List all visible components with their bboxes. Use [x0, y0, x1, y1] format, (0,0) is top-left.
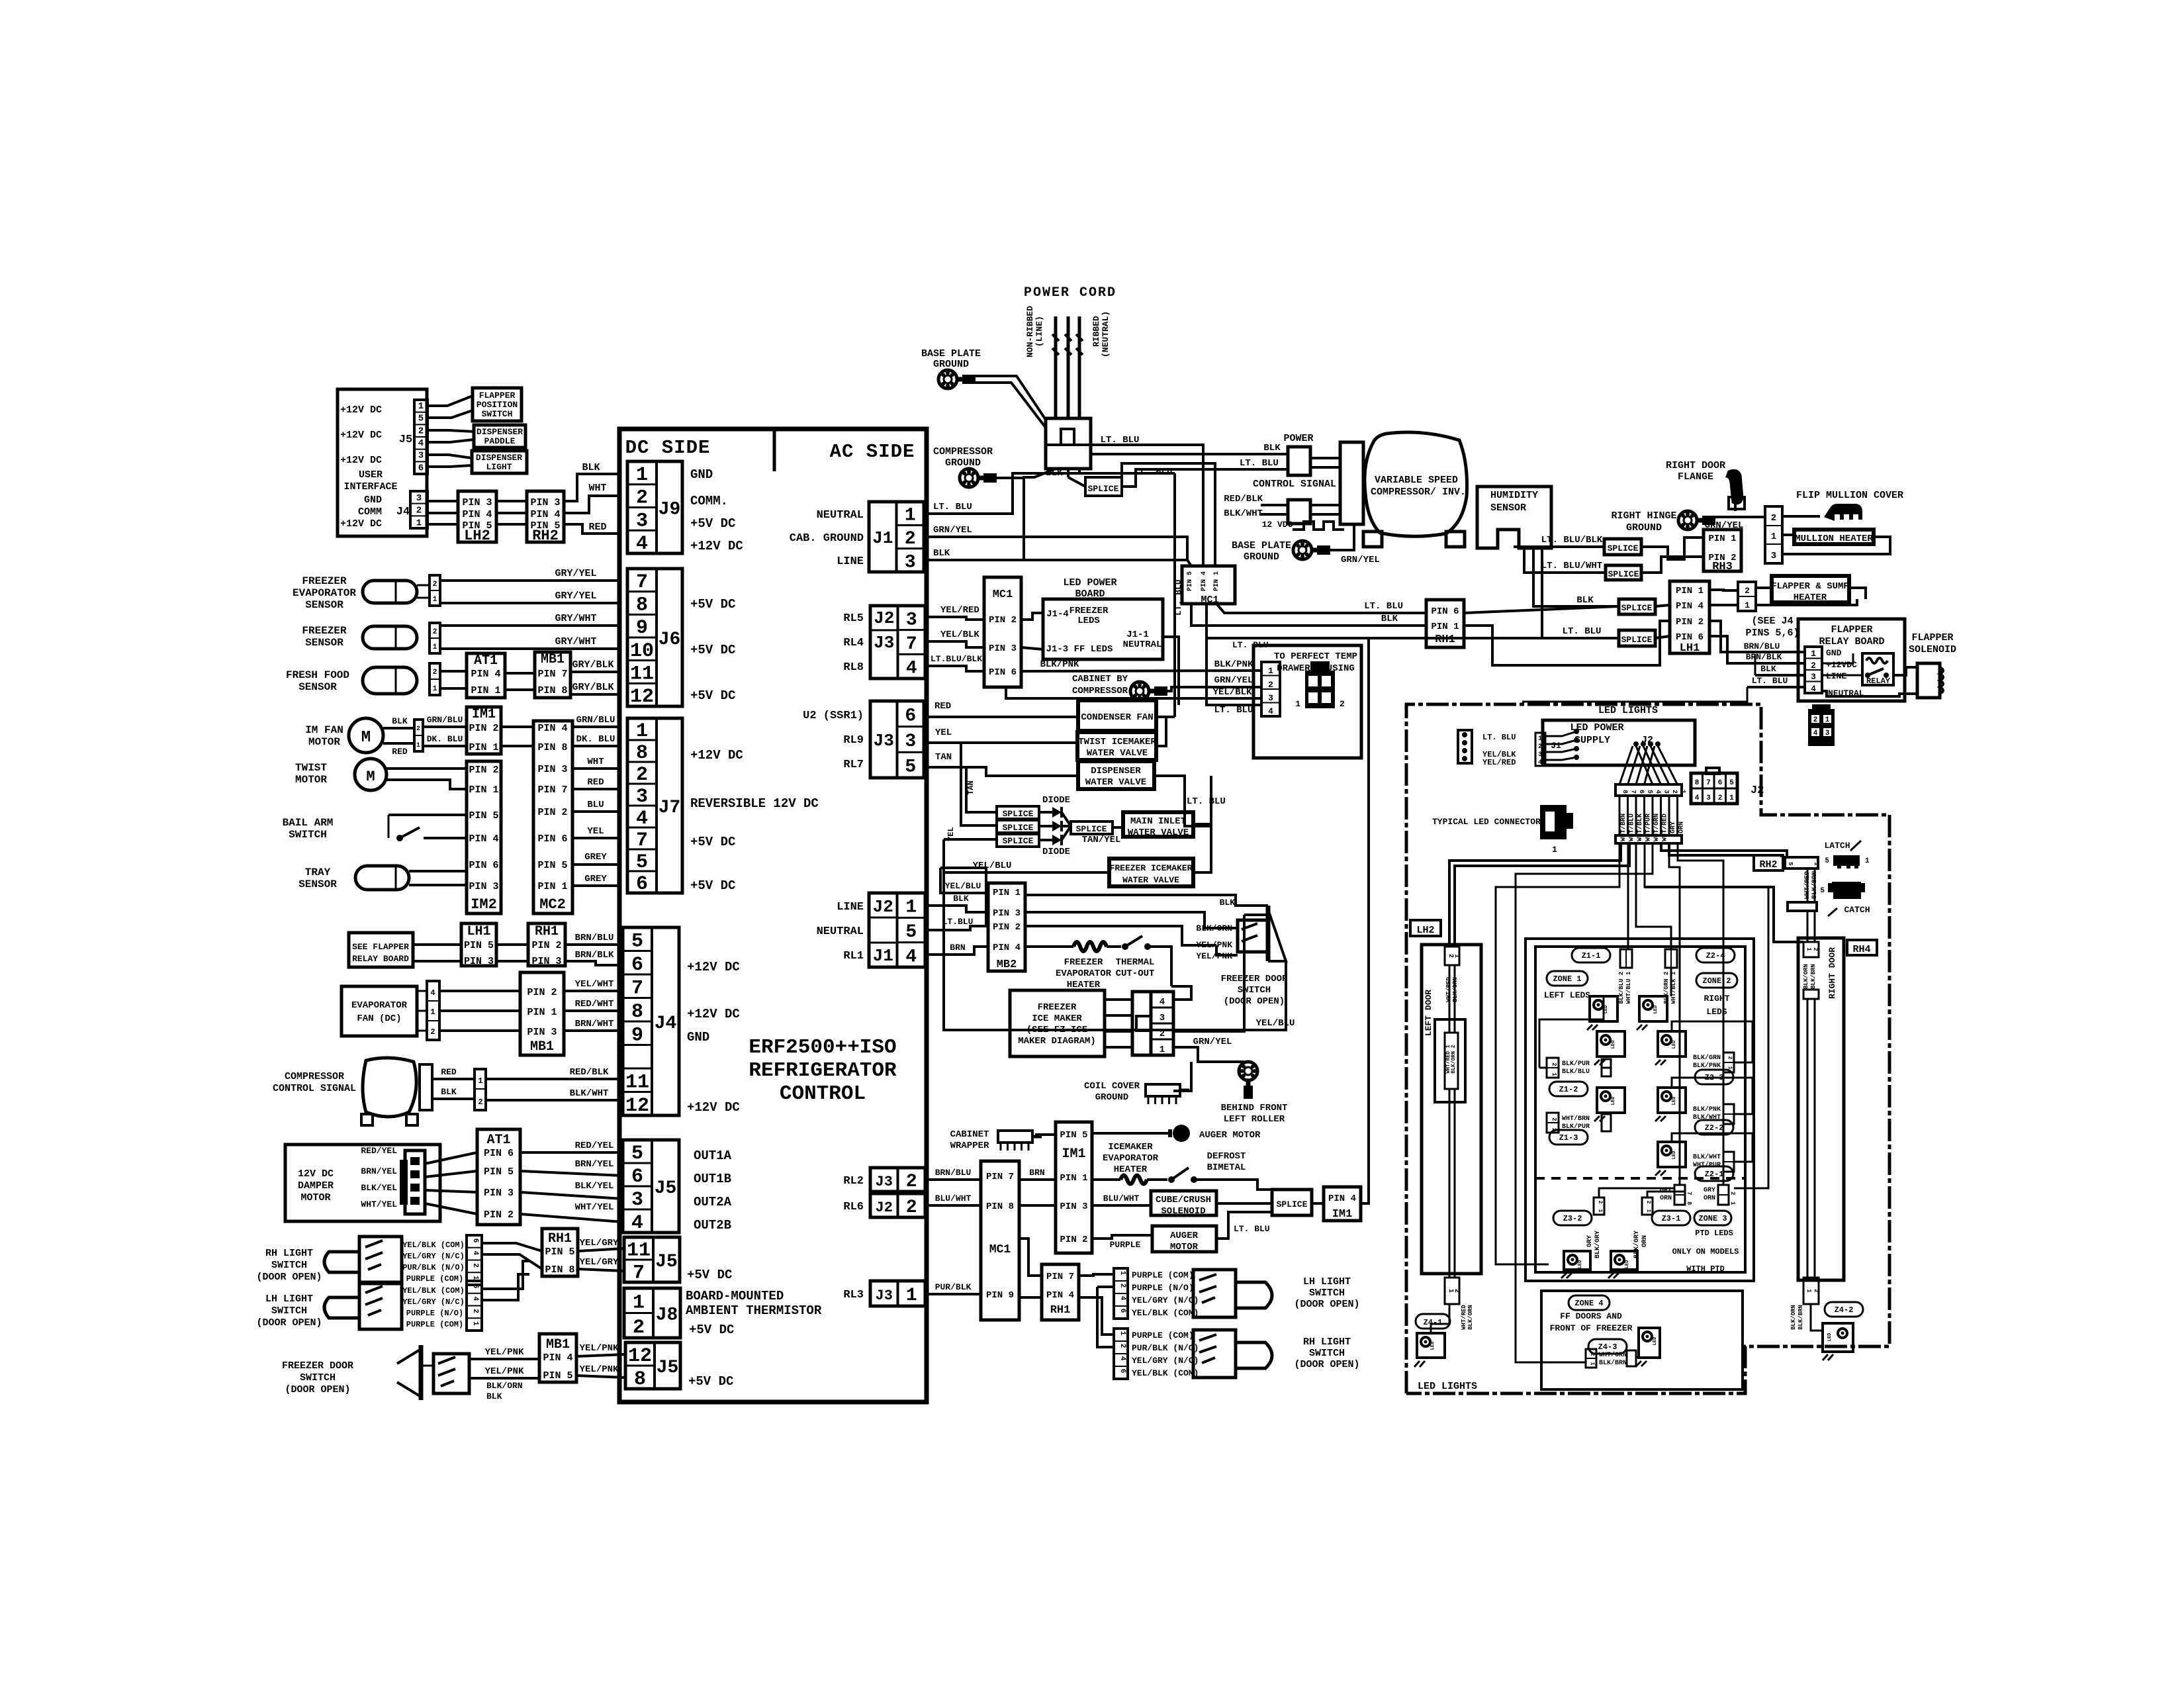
flapper relay board — [1798, 619, 1905, 701]
catch bar — [1788, 902, 1817, 911]
connector J8 — [624, 1288, 680, 1338]
auger motor top — [1092, 1132, 1170, 1135]
Z1-3 oval — [1549, 1130, 1588, 1145]
svg-text:CABINET: CABINET — [950, 1129, 989, 1140]
svg-text:YEL/WHT: YEL/WHT — [575, 979, 614, 990]
svg-text:PADDLE: PADDLE — [484, 436, 516, 446]
svg-text:DK. BLU: DK. BLU — [427, 734, 463, 744]
svg-text:RH1: RH1 — [1435, 633, 1455, 646]
yel/blu loop — [944, 872, 1286, 1030]
led power supply box — [1543, 720, 1695, 765]
svg-text:BLK: BLK — [1576, 595, 1594, 606]
svg-text:PIN 7: PIN 7 — [537, 669, 567, 680]
svg-text:PIN 6: PIN 6 — [1431, 606, 1459, 617]
svg-text:LT. BLU: LT. BLU — [933, 502, 972, 512]
svg-text:2: 2 — [636, 764, 648, 786]
twist icemaker water valve box — [1077, 732, 1156, 760]
freezer ice maker box — [1010, 990, 1105, 1056]
svg-text:FREEZER: FREEZER — [1064, 957, 1103, 968]
svg-text:PIN 5: PIN 5 — [1187, 571, 1194, 591]
auger motor box — [1092, 1235, 1152, 1239]
freezer evaporator heater — [1025, 945, 1073, 948]
wires J1 header to supply — [1545, 731, 1576, 736]
svg-text:(DOOR OPEN): (DOOR OPEN) — [285, 1384, 350, 1395]
svg-text:YEL/RED: YEL/RED — [1482, 758, 1516, 767]
svg-text:PIN 4: PIN 4 — [530, 509, 560, 520]
svg-text:PIN 4: PIN 4 — [537, 723, 567, 734]
flapper and sump heater — [1772, 576, 1849, 602]
svg-text:RED/YEL: RED/YEL — [575, 1141, 614, 1151]
connector MB1 (evap fan) — [520, 972, 564, 1055]
svg-text:PIN 3: PIN 3 — [530, 497, 560, 508]
svg-text:FRONT OF FREEZER: FRONT OF FREEZER — [1550, 1323, 1633, 1333]
splice bottom — [1272, 1190, 1312, 1215]
svg-text:J4: J4 — [655, 1013, 677, 1034]
svg-text:6: 6 — [1637, 790, 1645, 794]
svg-text:RED/WHT: RED/WHT — [575, 999, 614, 1009]
svg-text:Z4-3: Z4-3 — [1598, 1342, 1617, 1352]
svg-text:LT. BLU: LT. BLU — [1482, 733, 1516, 742]
svg-text:Z2-1: Z2-1 — [1705, 1170, 1724, 1179]
svg-text:RED: RED — [934, 701, 951, 712]
connector J7 — [627, 718, 682, 893]
svg-text:DIODE: DIODE — [1042, 847, 1070, 857]
svg-text:8: 8 — [636, 594, 648, 617]
svg-text:BLK/WHT: BLK/WHT — [570, 1088, 609, 1099]
svg-text:WATER VALVE: WATER VALVE — [1128, 827, 1189, 838]
svg-text:PIN 1: PIN 1 — [469, 742, 498, 753]
svg-text:6: 6 — [1118, 1309, 1126, 1313]
svg-text:2: 2 — [1453, 1289, 1460, 1293]
svg-text:7: 7 — [631, 977, 643, 1000]
svg-text:6: 6 — [631, 954, 643, 976]
svg-text:LED LIGHTS: LED LIGHTS — [1598, 705, 1658, 716]
svg-text:4: 4 — [1813, 729, 1818, 737]
svg-text:WATER VALVE: WATER VALVE — [1122, 875, 1179, 885]
svg-text:LT. BLU/BLK: LT. BLU/BLK — [1541, 535, 1603, 545]
svg-text:1: 1 — [416, 742, 420, 749]
svg-text:1: 1 — [1552, 845, 1557, 855]
svg-text:CONDENSER FAN: CONDENSER FAN — [1081, 712, 1153, 723]
RH light switch center pins — [1114, 1329, 1128, 1379]
svg-text:BLK: BLK — [1760, 664, 1776, 674]
connector AT1 (damper) — [477, 1129, 520, 1225]
svg-text:PURPLE (N/O): PURPLE (N/O) — [1132, 1283, 1194, 1293]
svg-text:Z3-1: Z3-1 — [1662, 1214, 1681, 1223]
svg-text:2: 2 — [1813, 716, 1818, 724]
svg-text:AT1: AT1 — [486, 1133, 510, 1148]
svg-text:SWITCH: SWITCH — [300, 1372, 336, 1383]
svg-text:6: 6 — [1718, 779, 1723, 787]
svg-text:LH LIGHT: LH LIGHT — [1303, 1276, 1351, 1288]
svg-text:SWITCH: SWITCH — [1238, 985, 1271, 996]
svg-text:4: 4 — [905, 947, 917, 967]
svg-text:RIGHT HINGE: RIGHT HINGE — [1611, 510, 1676, 522]
svg-text:PIN 6: PIN 6 — [469, 860, 498, 871]
svg-text:BLK/BRN: BLK/BRN — [1797, 1305, 1804, 1330]
svg-text:ONLY ON MODELS: ONLY ON MODELS — [1672, 1247, 1739, 1256]
svg-text:PIN 6: PIN 6 — [989, 667, 1017, 678]
svg-text:RH4: RH4 — [1852, 944, 1870, 955]
svg-text:PIN 1: PIN 1 — [1213, 571, 1220, 591]
wire J1 AC outputs — [924, 473, 1079, 514]
wires bundle to RH2 latch — [1661, 843, 1787, 857]
svg-text:PIN 3: PIN 3 — [484, 1188, 514, 1199]
Z4-1 oval — [1416, 1314, 1450, 1329]
svg-text:4: 4 — [471, 1296, 479, 1301]
svg-text:PIN 4: PIN 4 — [1046, 1290, 1074, 1301]
svg-text:ORN: ORN — [1678, 821, 1686, 833]
connector J3 RL2 — [870, 1168, 925, 1192]
svg-text:LH1: LH1 — [467, 924, 490, 939]
svg-text:PIN 1: PIN 1 — [527, 1007, 557, 1018]
Z4-2 oval — [1825, 1302, 1863, 1317]
svg-text:2: 2 — [633, 1317, 645, 1339]
connector J3 U2 RL9 RL7 — [870, 701, 924, 778]
svg-text:PIN 1: PIN 1 — [1431, 622, 1459, 632]
svg-text:POSITION: POSITION — [477, 400, 518, 410]
svg-text:PURPLE: PURPLE — [1110, 1240, 1141, 1250]
svg-text:BLK/GRY: BLK/GRY — [1594, 1231, 1602, 1258]
svg-text:PIN 3: PIN 3 — [993, 908, 1021, 919]
svg-text:8: 8 — [634, 1368, 646, 1391]
svg-text:12 VDC: 12 VDC — [1262, 520, 1293, 530]
svg-text:1: 1 — [1865, 857, 1870, 865]
svg-text:4: 4 — [1538, 759, 1542, 767]
compressor terminal box — [1340, 442, 1363, 524]
svg-text:NEUTRAL: NEUTRAL — [1123, 639, 1162, 650]
svg-text:PIN 5: PIN 5 — [537, 860, 567, 871]
flapper sump 2/1 col — [1738, 582, 1756, 611]
svg-text:WATER VALVE: WATER VALVE — [1087, 748, 1148, 759]
wires evap fan MB1 J4 — [439, 990, 520, 992]
svg-text:1: 1 — [906, 1286, 917, 1306]
svg-text:HEATER: HEATER — [1794, 592, 1827, 603]
svg-text:1: 1 — [636, 464, 648, 487]
svg-text:J2: J2 — [876, 1199, 893, 1216]
svg-text:1: 1 — [1453, 954, 1460, 958]
svg-text:SPLICE: SPLICE — [1608, 569, 1639, 579]
svg-text:2: 2 — [416, 726, 420, 733]
svg-text:2: 2 — [905, 529, 916, 549]
connector 2/1/3 mullion — [1765, 506, 1782, 563]
svg-text:3: 3 — [1825, 729, 1830, 737]
svg-text:7: 7 — [636, 571, 648, 594]
svg-text:GND: GND — [364, 494, 382, 506]
PIN 4 IM1 box — [1324, 1187, 1361, 1221]
svg-text:GROUND: GROUND — [945, 457, 981, 469]
svg-text:BRN/YEL: BRN/YEL — [575, 1159, 614, 1170]
Z2-2 cells — [1723, 1104, 1734, 1124]
svg-text:AC SIDE: AC SIDE — [830, 441, 915, 463]
Z3-1 oval — [1652, 1211, 1690, 1225]
svg-text:SPLICE: SPLICE — [1076, 824, 1107, 834]
svg-text:4: 4 — [636, 808, 648, 830]
svg-text:RED: RED — [392, 747, 408, 757]
svg-text:+5V DC: +5V DC — [690, 878, 735, 893]
svg-text:+12V DC: +12V DC — [687, 1007, 740, 1021]
svg-text:8: 8 — [1695, 779, 1700, 787]
svg-text:DC SIDE: DC SIDE — [625, 437, 711, 459]
svg-text:RH LIGHT: RH LIGHT — [265, 1248, 313, 1259]
svg-text:LT.BLU: LT.BLU — [942, 917, 974, 927]
svg-text:BLK/BLU 2: BLK/BLU 2 — [1618, 972, 1625, 1004]
svg-text:RL3: RL3 — [843, 1289, 864, 1301]
connector RH3 — [1704, 530, 1741, 571]
svg-text:+5V DC: +5V DC — [690, 516, 735, 531]
svg-text:LED: LED — [1672, 1041, 1677, 1049]
svg-text:4: 4 — [1118, 1356, 1126, 1361]
svg-text:J9: J9 — [659, 499, 681, 520]
svg-text:J2: J2 — [873, 897, 893, 917]
svg-text:5: 5 — [636, 851, 648, 874]
svg-text:GRN/YEL: GRN/YEL — [1193, 1037, 1232, 1047]
svg-text:2: 2 — [1729, 1192, 1736, 1195]
svg-text:YEL: YEL — [935, 727, 952, 738]
svg-text:PTD LEDS: PTD LEDS — [1695, 1229, 1733, 1238]
svg-text:PIN 5: PIN 5 — [545, 1246, 574, 1258]
RH2 label box — [1754, 855, 1783, 870]
svg-text:IM1: IM1 — [1062, 1147, 1085, 1162]
svg-text:PIN 1: PIN 1 — [469, 784, 498, 796]
svg-text:PURPLE (COM): PURPLE (COM) — [1132, 1331, 1194, 1340]
svg-text:PIN 5: PIN 5 — [469, 810, 498, 821]
svg-text:RL4: RL4 — [843, 637, 864, 649]
svg-text:BLK/ORN: BLK/ORN — [1467, 1305, 1474, 1330]
svg-text:OUT1B: OUT1B — [694, 1172, 731, 1186]
svg-text:(LINE): (LINE) — [1034, 316, 1044, 347]
svg-text:COMM: COMM — [358, 506, 382, 518]
svg-text:LT. BLU: LT. BLU — [1563, 626, 1602, 637]
svg-text:GROUND: GROUND — [933, 359, 969, 370]
humidity sensor wires — [1515, 547, 1604, 548]
svg-text:PURPLE (COM): PURPLE (COM) — [1132, 1270, 1194, 1280]
svg-text:10: 10 — [630, 640, 654, 663]
svg-text:PIN 2: PIN 2 — [469, 723, 498, 734]
svg-text:1: 1 — [1551, 1072, 1557, 1076]
freezer ice maker connector — [1132, 992, 1151, 1055]
svg-text:RL7: RL7 — [843, 759, 864, 771]
svg-text:YEL/PNK: YEL/PNK — [485, 1347, 524, 1358]
svg-text:J5: J5 — [655, 1252, 678, 1272]
svg-text:BLK/WHT: BLK/WHT — [1224, 508, 1263, 519]
main inlet water valve — [1123, 812, 1193, 837]
Z2-4 oval — [1696, 948, 1735, 962]
Z2-3 cells — [1723, 1053, 1734, 1072]
svg-text:DK. BLU: DK. BLU — [576, 734, 615, 745]
svg-text:ZONE 3: ZONE 3 — [1698, 1214, 1727, 1223]
svg-text:BLU: BLU — [587, 800, 604, 810]
J2 connector icon — [1691, 773, 1737, 804]
svg-text:GND: GND — [687, 1030, 709, 1045]
zone1 led A — [1590, 996, 1617, 1021]
svg-text:6: 6 — [1118, 1369, 1126, 1374]
svg-text:2: 2 — [1812, 947, 1819, 951]
svg-text:+5V DC: +5V DC — [688, 1374, 733, 1389]
svg-text:AUGER MOTOR: AUGER MOTOR — [1199, 1130, 1261, 1141]
connector RH1 right — [1426, 600, 1464, 647]
wires into flapper relay — [1709, 621, 1805, 652]
power cord wires — [1054, 316, 1058, 418]
svg-text:1: 1 — [1645, 1209, 1651, 1213]
svg-text:PIN 4: PIN 4 — [993, 943, 1021, 953]
connector J2/J3 RL5 RL4 RL8 — [870, 606, 925, 679]
svg-text:RELAY: RELAY — [1866, 677, 1891, 686]
wires AT1 to J5 — [520, 1151, 623, 1154]
svg-text:ICE MAKER: ICE MAKER — [1032, 1013, 1082, 1024]
connector MB1 (fresh food) — [535, 652, 570, 698]
connector IM2 column — [467, 761, 501, 914]
svg-text:BRN/BLU: BRN/BLU — [575, 933, 614, 943]
flapper relay bottom connector — [1808, 709, 1835, 746]
svg-text:1: 1 — [1589, 1362, 1595, 1366]
svg-text:RH2: RH2 — [532, 528, 559, 544]
zone4 cells — [1586, 1349, 1596, 1368]
connector J2 RL6 — [870, 1194, 925, 1217]
svg-text:PIN 8: PIN 8 — [537, 685, 567, 696]
svg-text:EVAPORATOR: EVAPORATOR — [1103, 1153, 1159, 1164]
wires AT1-MB1-J6 — [505, 672, 535, 675]
left door wires from bundle — [1449, 843, 1621, 945]
wires J2/J1 to MB2 — [940, 872, 988, 893]
svg-text:YEL/PNK: YEL/PNK — [580, 1364, 619, 1375]
left door inner — [1435, 1019, 1465, 1102]
svg-text:PIN 5: PIN 5 — [464, 940, 494, 951]
svg-text:RL1: RL1 — [843, 950, 864, 962]
splice 1 right — [1604, 539, 1641, 555]
svg-text:FLANGE: FLANGE — [1678, 471, 1713, 483]
svg-text:RL2: RL2 — [843, 1175, 864, 1188]
svg-text:BLK/PNK: BLK/PNK — [1693, 1062, 1721, 1070]
svg-text:LED: LED — [1653, 1006, 1659, 1014]
connector J5 c — [625, 1342, 680, 1389]
svg-text:MAIN INLET: MAIN INLET — [1130, 816, 1186, 827]
svg-text:ICEMAKER: ICEMAKER — [1108, 1142, 1153, 1152]
svg-text:SPLICE: SPLICE — [1621, 635, 1653, 645]
svg-text:CONTROL SIGNAL: CONTROL SIGNAL — [1253, 479, 1336, 490]
svg-text:+12V DC: +12V DC — [340, 455, 382, 466]
Z4-2 LED — [1823, 1323, 1853, 1352]
svg-text:BLK/BRN: BLK/BRN — [1810, 964, 1817, 989]
12V DC damper motor box — [285, 1145, 440, 1221]
svg-text:2: 2 — [433, 581, 437, 588]
svg-text:J3: J3 — [876, 1288, 893, 1304]
wires RH1 to switch pins — [1079, 1274, 1114, 1276]
svg-text:SWITCH: SWITCH — [482, 409, 513, 419]
zone 4 label — [1569, 1295, 1610, 1310]
svg-text:TAN: TAN — [935, 752, 952, 763]
svg-text:RED/BLK: RED/BLK — [570, 1067, 609, 1078]
wires splices to LH1/RH3 — [1641, 538, 1704, 559]
svg-text:BLK: BLK — [1263, 443, 1281, 453]
svg-text:LED: LED — [1578, 1260, 1583, 1269]
svg-text:MC1: MC1 — [1201, 594, 1218, 606]
svg-text:YEL/GRY: YEL/GRY — [580, 1257, 619, 1268]
svg-text:PIN 8: PIN 8 — [537, 742, 567, 753]
svg-text:1: 1 — [1805, 1289, 1812, 1293]
svg-text:WITH PTD: WITH PTD — [1686, 1264, 1725, 1274]
connector J5 out — [623, 1140, 679, 1233]
svg-text:BLK: BLK — [1220, 898, 1236, 908]
svg-text:GROUND: GROUND — [1244, 551, 1279, 563]
svg-text:LT. BLU/WHT: LT. BLU/WHT — [1541, 561, 1602, 571]
svg-text:3: 3 — [1268, 693, 1273, 703]
svg-text:YEL/BLK (COM): YEL/BLK (COM) — [1132, 1308, 1199, 1318]
svg-text:2: 2 — [1771, 513, 1776, 524]
svg-text:Z1-1: Z1-1 — [1582, 951, 1601, 961]
svg-text:4: 4 — [1811, 684, 1816, 694]
svg-text:M: M — [361, 729, 371, 747]
svg-text:J3: J3 — [874, 633, 894, 653]
wires RH light to RH1 and J5 — [482, 1243, 542, 1251]
svg-text:PIN 5: PIN 5 — [484, 1166, 514, 1178]
svg-text:1: 1 — [633, 1291, 645, 1314]
svg-text:5: 5 — [1787, 862, 1794, 865]
svg-text:MOTOR: MOTOR — [1170, 1242, 1199, 1252]
svg-text:BLK/GRN: BLK/GRN — [1693, 1054, 1721, 1062]
svg-text:WHT: WHT — [587, 757, 604, 767]
svg-text:4: 4 — [906, 659, 917, 679]
Z2-1 cells — [1723, 1152, 1734, 1172]
svg-text:YEL/GRY (N/C): YEL/GRY (N/C) — [1132, 1356, 1199, 1366]
svg-text:1: 1 — [433, 643, 437, 651]
svg-text:LT. BLU: LT. BLU — [1214, 705, 1253, 716]
svg-text:PIN 1: PIN 1 — [1676, 586, 1704, 596]
svg-text:BAIL ARM: BAIL ARM — [283, 817, 334, 829]
svg-text:BLK: BLK — [1381, 614, 1398, 624]
svg-text:12: 12 — [628, 1345, 652, 1368]
svg-text:LEFT ROLLER: LEFT ROLLER — [1224, 1114, 1285, 1125]
svg-text:GRY/WHT: GRY/WHT — [555, 613, 596, 624]
svg-text:LEDS: LEDS — [1077, 616, 1100, 626]
wires freezer door switch to MB1 — [469, 1358, 539, 1360]
svg-text:YEL/BLK (COM): YEL/BLK (COM) — [402, 1286, 465, 1295]
svg-text:LED: LED — [1653, 1337, 1658, 1346]
connector MB2 — [988, 883, 1025, 971]
svg-text:FREEZER: FREEZER — [302, 625, 347, 637]
svg-text:5: 5 — [1729, 779, 1734, 787]
svg-text:PIN 4: PIN 4 — [1676, 601, 1704, 612]
splice boxes with diodes — [961, 743, 997, 825]
svg-text:PIN 1: PIN 1 — [1060, 1173, 1087, 1184]
svg-text:WHT/PUR: WHT/PUR — [1645, 814, 1653, 841]
svg-text:PUR/BLK (N/O): PUR/BLK (N/O) — [1132, 1343, 1199, 1353]
svg-text:2: 2 — [1727, 1056, 1733, 1060]
svg-text:BRN: BRN — [950, 943, 965, 953]
svg-text:NEUTRAL: NEUTRAL — [817, 925, 864, 938]
svg-text:2: 2 — [471, 1309, 479, 1313]
freezer icemaker water valve — [1109, 859, 1193, 886]
svg-text:LIGHT: LIGHT — [486, 462, 512, 472]
svg-text:TAN: TAN — [966, 780, 976, 795]
svg-text:PIN 9: PIN 9 — [986, 1290, 1014, 1301]
svg-text:TYPICAL LED CONNECTOR: TYPICAL LED CONNECTOR — [1432, 817, 1541, 827]
svg-text:LT.BLU/BLK: LT.BLU/BLK — [931, 654, 982, 664]
svg-text:+5V DC: +5V DC — [689, 1323, 734, 1337]
svg-text:PIN 4: PIN 4 — [1328, 1194, 1356, 1204]
connector RH1 (flapper) — [528, 923, 565, 966]
svg-text:WHT/BLK: WHT/BLK — [1636, 814, 1644, 841]
zone wires — [1670, 968, 1672, 996]
svg-text:5: 5 — [418, 414, 424, 424]
svg-text:MOTOR: MOTOR — [300, 1192, 330, 1203]
svg-text:ZONE 2: ZONE 2 — [1702, 976, 1731, 986]
svg-text:2: 2 — [418, 426, 424, 436]
svg-text:GROUND: GROUND — [1095, 1092, 1128, 1103]
svg-text:LED POWER: LED POWER — [1063, 577, 1116, 588]
freezer door switch center — [1266, 906, 1271, 961]
svg-text:GRN/YEL: GRN/YEL — [1341, 555, 1380, 565]
